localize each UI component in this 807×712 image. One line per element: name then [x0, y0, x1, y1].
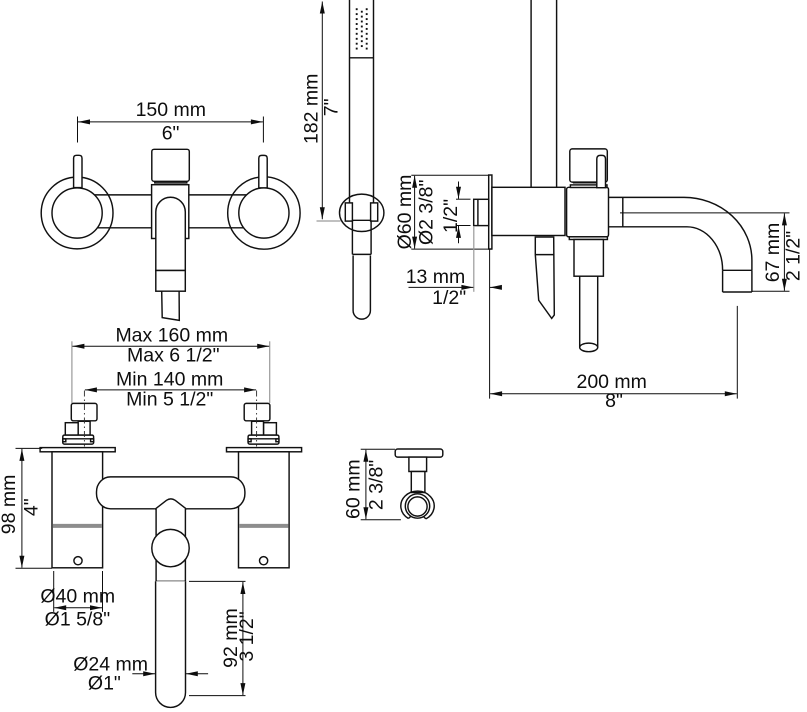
body bar front view	[80, 195, 261, 228]
svg-text:4": 4"	[21, 498, 43, 516]
svg-text:2 3/8": 2 3/8"	[366, 460, 388, 510]
dimension 92 mm	[189, 581, 258, 695]
spout collar	[609, 197, 688, 226]
hand shower grip	[352, 220, 371, 254]
spray head	[350, 0, 374, 58]
dimension 200 mm	[490, 250, 738, 412]
pivot ball circle	[152, 529, 189, 566]
right column gray band	[239, 524, 288, 528]
svg-text:Min 5 1/2": Min 5 1/2"	[126, 389, 213, 411]
svg-text:Ø1 5/8": Ø1 5/8"	[45, 608, 111, 630]
left escutcheon outer circle	[41, 177, 113, 249]
svg-text:3 1/2": 3 1/2"	[236, 611, 258, 661]
grip top line	[352, 219, 370, 221]
neck roof lines	[155, 499, 187, 509]
mixer body side	[492, 187, 565, 235]
dimension Max 160 mm	[72, 325, 269, 367]
cartridge housing front	[152, 185, 189, 239]
svg-text:150 mm: 150 mm	[136, 99, 206, 121]
dimension 182 mm	[301, 2, 343, 222]
right screw hole	[260, 557, 268, 565]
grip top line	[156, 580, 185, 582]
holder seam band	[569, 237, 607, 240]
left column gray band	[53, 524, 102, 528]
svg-text:60 mm: 60 mm	[342, 459, 364, 519]
bracket ring outer	[401, 491, 434, 519]
spray face dots	[356, 8, 368, 49]
bracket wall plate	[395, 449, 443, 457]
svg-text:Ø60 mm: Ø60 mm	[394, 175, 416, 250]
svg-text:Max 160 mm: Max 160 mm	[115, 325, 228, 347]
outlet block front	[156, 271, 186, 292]
holder tube	[580, 276, 598, 347]
svg-text:2 1/2": 2 1/2"	[783, 231, 805, 281]
dimension 150 mm	[78, 99, 264, 144]
outlet stub front	[162, 291, 180, 320]
dimension 1/2 inch stub	[440, 182, 471, 244]
dimension D24 mm	[73, 654, 208, 695]
right eccentric union	[244, 341, 279, 446]
neck sides	[156, 509, 185, 582]
knob seam	[155, 181, 187, 183]
holder tube outlet ellipse	[580, 343, 598, 352]
dimension D40 mm	[40, 571, 115, 630]
spout outer bend	[684, 197, 752, 270]
svg-text:1/2": 1/2"	[440, 199, 462, 233]
dimension 13 mm	[406, 226, 501, 309]
bracket ring inner	[408, 497, 427, 516]
stub inner line	[477, 200, 479, 225]
left screw hole	[74, 557, 82, 565]
bracket ring prong ends	[408, 516, 411, 518]
bracket clip left	[345, 203, 352, 221]
hose column	[531, 0, 557, 187]
hand shower lower tube	[353, 256, 370, 320]
blade seam	[535, 254, 554, 256]
hand shower handle	[350, 58, 374, 203]
svg-text:98 mm: 98 mm	[0, 475, 20, 535]
right mounting plate	[227, 448, 302, 452]
svg-text:Ø1": Ø1"	[88, 672, 121, 694]
svg-text:13 mm: 13 mm	[406, 266, 466, 288]
inlet stub 1/2	[474, 199, 489, 225]
svg-text:67 mm: 67 mm	[762, 223, 784, 283]
hand shower blade side	[535, 237, 554, 318]
wall flange side	[489, 175, 492, 249]
left column	[52, 452, 103, 568]
svg-text:Ø2 3/8": Ø2 3/8"	[415, 179, 437, 245]
svg-text:8": 8"	[605, 390, 623, 412]
bracket stem lower	[411, 472, 425, 493]
svg-text:6": 6"	[162, 122, 180, 144]
handle grip bottom view	[156, 581, 186, 707]
right escutcheon inner circle	[239, 188, 289, 238]
svg-text:1/2": 1/2"	[432, 287, 466, 309]
dimension 67 mm	[620, 213, 805, 291]
spout inner bend	[687, 227, 723, 270]
bracket clip right	[371, 203, 378, 221]
cartridge cover side	[567, 187, 609, 237]
wall bracket ring front	[340, 194, 384, 231]
right escutcheon outer circle	[228, 177, 300, 249]
bracket stem upper	[409, 457, 427, 471]
left eccentric union	[63, 341, 97, 446]
knob base band	[570, 185, 607, 188]
dimension 60 mm	[342, 449, 401, 519]
dimension Min 140 mm	[85, 369, 256, 411]
left mounting plate	[40, 448, 115, 452]
dimension D60 mm	[394, 175, 492, 250]
spout tip	[723, 270, 752, 292]
svg-text:7": 7"	[321, 98, 343, 116]
lever pin side	[597, 155, 606, 187]
dimension 98 mm	[0, 448, 52, 568]
bracket ring mid	[405, 494, 429, 518]
svg-text:Max 6 1/2": Max 6 1/2"	[127, 344, 220, 366]
lever handle U front	[156, 197, 186, 270]
svg-text:182 mm: 182 mm	[301, 74, 323, 144]
holder block side	[574, 240, 603, 277]
knob front	[152, 149, 190, 181]
knob seam side	[573, 182, 597, 184]
body bar bottom view	[97, 477, 245, 509]
knob side	[570, 149, 608, 182]
left escutcheon inner circle	[52, 188, 102, 238]
right pin	[259, 155, 267, 187]
svg-text:Min 140 mm: Min 140 mm	[116, 369, 223, 391]
svg-text:Ø40 mm: Ø40 mm	[40, 586, 115, 608]
left pin	[74, 155, 82, 187]
right column	[239, 452, 290, 568]
